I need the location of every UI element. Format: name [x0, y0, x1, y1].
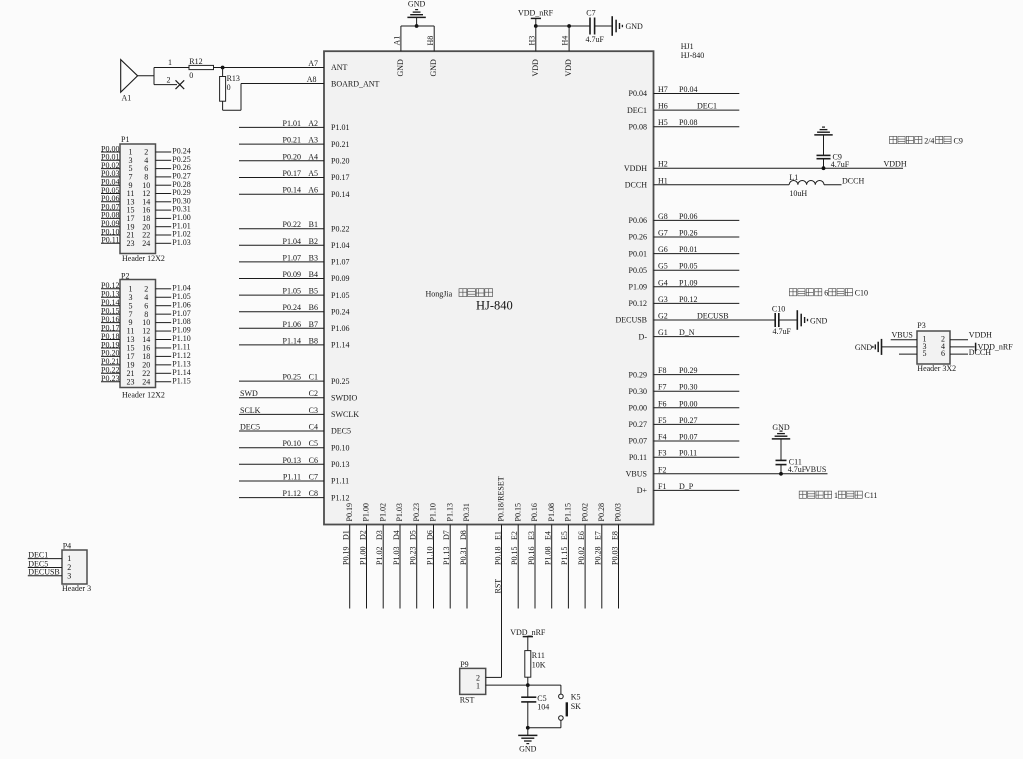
svg-text:SWDIO: SWDIO: [331, 393, 357, 402]
svg-text:RST: RST: [493, 579, 502, 594]
resistor R11 10K: [525, 651, 531, 678]
svg-text:A7: A7: [308, 59, 318, 68]
svg-text:P1.01: P1.01: [283, 119, 301, 128]
svg-text:P0.10: P0.10: [331, 443, 349, 452]
P1 pin 13 P0.06 wire: [101, 201, 120, 203]
P2 pin 22 P1.14 wire: [156, 372, 172, 374]
ground (top, A1/H8): [407, 16, 425, 18]
pin B3 P1.07 wire: [239, 261, 324, 263]
pin E2 P0.15 wire: [517, 525, 519, 609]
svg-text:F8: F8: [658, 366, 666, 375]
svg-text:DEC1: DEC1: [697, 102, 717, 111]
svg-text:VDD_nRF: VDD_nRF: [518, 9, 554, 18]
svg-text:P1.13: P1.13: [442, 547, 451, 565]
svg-text:G2: G2: [658, 312, 668, 321]
svg-text:P0.06: P0.06: [679, 212, 697, 221]
pin E3 P0.16 wire: [534, 525, 536, 609]
P2 pin 9 P0.16 wire: [101, 322, 120, 324]
svg-text:P1.12: P1.12: [283, 489, 301, 498]
svg-text:D1: D1: [342, 530, 351, 540]
wire L1 to DCCH label: [824, 184, 842, 186]
svg-text:P0.15: P0.15: [513, 503, 522, 521]
svg-text:P1.06: P1.06: [283, 320, 301, 329]
svg-text:P0.03: P0.03: [610, 547, 619, 565]
pin E6 P0.02 wire: [584, 525, 586, 609]
svg-text:P0.28: P0.28: [597, 503, 606, 521]
P2 pin 1 P0.12 wire: [101, 288, 120, 290]
svg-text:P0.26: P0.26: [679, 229, 697, 238]
pin A3 P0.21 wire: [239, 143, 324, 145]
pin D4 P1.03 wire: [399, 525, 401, 609]
svg-text:DCCH: DCCH: [625, 181, 647, 190]
pin D2 P1.00 wire: [366, 525, 368, 609]
pin B4 P0.09 wire: [239, 278, 324, 280]
svg-text:10K: 10K: [532, 661, 546, 670]
wire K5 to ground node: [560, 720, 562, 728]
svg-text:P0.02: P0.02: [580, 503, 589, 521]
P2 pin 6 P1.06 wire: [156, 305, 172, 307]
antenna A1: [121, 60, 138, 93]
svg-text:D7: D7: [442, 530, 451, 540]
svg-text:P0.06: P0.06: [629, 216, 647, 225]
P1 pin 14 P0.30 wire: [156, 201, 172, 203]
svg-text:VDDH: VDDH: [969, 331, 992, 340]
svg-text:P1.05: P1.05: [331, 291, 349, 300]
svg-text:G4: G4: [658, 278, 668, 287]
svg-text:P3: P3: [917, 321, 925, 330]
svg-text:P0.17: P0.17: [331, 173, 349, 182]
svg-text:DEC5: DEC5: [240, 423, 260, 432]
svg-text:C7: C7: [309, 473, 318, 482]
svg-text:P0.20: P0.20: [331, 157, 349, 166]
svg-text:1: 1: [67, 554, 71, 563]
svg-text:P0.10: P0.10: [283, 439, 301, 448]
svg-text:SCLK: SCLK: [240, 406, 261, 415]
svg-text:H1: H1: [658, 176, 668, 185]
svg-text:GND: GND: [626, 22, 644, 31]
ground (right of C7): [611, 16, 613, 36]
pin D8 P0.31 wire: [466, 525, 468, 609]
connector P2 Header 12X2: [120, 280, 156, 388]
svg-text:P0.09: P0.09: [283, 270, 301, 279]
svg-text:P0.31: P0.31: [459, 547, 468, 565]
svg-text:P0.15: P0.15: [510, 547, 519, 565]
P2 pin 3 P0.13 wire: [101, 296, 120, 298]
svg-text:P0.18: P0.18: [493, 547, 502, 565]
P1 pin 2 P0.24 wire: [156, 151, 172, 153]
svg-text:A1: A1: [393, 36, 402, 46]
pin B1 P0.22 wire: [239, 228, 324, 230]
svg-text:P4: P4: [63, 541, 71, 550]
svg-text:D_N: D_N: [679, 328, 695, 337]
svg-text:P0.23: P0.23: [409, 547, 418, 565]
svg-text:P1.05: P1.05: [283, 287, 301, 296]
ground (below reset circuit): [527, 728, 529, 736]
P2 pin 11 P0.17 wire: [101, 330, 120, 332]
svg-text:P9: P9: [460, 660, 468, 669]
svg-text:P1.00: P1.00: [362, 503, 371, 521]
svg-text:H2: H2: [658, 160, 668, 169]
svg-text:P0.08: P0.08: [679, 118, 697, 127]
svg-text:C3: C3: [309, 406, 318, 415]
pin C1 P0.25 wire: [239, 380, 324, 382]
P1 pin 10 P0.28 wire: [156, 184, 172, 186]
svg-text:P1.11: P1.11: [283, 473, 301, 482]
wire P9 pin2 to RST net: [486, 676, 502, 678]
svg-text:P0.02: P0.02: [577, 547, 586, 565]
svg-text:C4: C4: [309, 423, 318, 432]
wire P9 pin1 node: [486, 684, 561, 686]
svg-text:B2: B2: [309, 237, 318, 246]
svg-text:H5: H5: [658, 118, 668, 127]
pin C5 P0.10 wire: [239, 447, 324, 449]
P1 pin 17 P0.08 wire: [101, 217, 120, 219]
svg-text:D5: D5: [409, 530, 418, 540]
svg-text:DEC1: DEC1: [28, 550, 48, 559]
svg-text:D-: D-: [639, 332, 648, 341]
wire antenna pin 2 stub: [154, 84, 177, 86]
svg-text:P0.01: P0.01: [629, 249, 647, 258]
svg-text:1: 1: [476, 682, 480, 691]
svg-text:23: 23: [127, 377, 135, 386]
svg-text:E4: E4: [544, 531, 553, 540]
svg-text:P1.13: P1.13: [445, 503, 454, 521]
P1 pin 19 P0.09 wire: [101, 226, 120, 228]
svg-text:P0.11: P0.11: [629, 453, 647, 462]
svg-text:C2: C2: [309, 389, 318, 398]
pin A6 P0.14 wire: [239, 193, 324, 195]
pin D3 P1.02 wire: [382, 525, 384, 609]
capacitor C7 4.7uF: [589, 18, 591, 35]
svg-text:HJ-840: HJ-840: [476, 299, 513, 313]
svg-text:D4: D4: [392, 530, 401, 540]
svg-text:E7: E7: [594, 531, 603, 540]
P1 pin 3 P0.01 wire: [101, 159, 120, 161]
svg-text:P0.23: P0.23: [412, 503, 421, 521]
P3 pin 6 DCCH wire: [950, 353, 968, 355]
wire R12 to pin A7: [214, 67, 325, 69]
svg-text:P0.29: P0.29: [629, 370, 647, 379]
svg-text:P0.24: P0.24: [331, 307, 349, 316]
resistor R13 0: [222, 68, 224, 77]
connector P9 RST: [460, 668, 486, 694]
pin C3 SWCLK wire: [239, 413, 324, 415]
svg-text:H8: H8: [426, 36, 435, 46]
P1 pin 7 P0.03 wire: [101, 176, 120, 178]
svg-text:SWD: SWD: [240, 389, 258, 398]
svg-text:F4: F4: [658, 433, 666, 442]
svg-text:GND: GND: [396, 59, 405, 77]
svg-text:GND: GND: [855, 343, 873, 352]
svg-text:0: 0: [189, 71, 193, 80]
svg-text:E5: E5: [560, 531, 569, 540]
svg-text:P0.12: P0.12: [679, 295, 697, 304]
pin C4 DEC5 wire: [239, 430, 324, 432]
pin H3 VDD: [535, 26, 537, 51]
svg-text:D6: D6: [425, 530, 434, 540]
svg-text:4.7uF: 4.7uF: [788, 465, 807, 474]
P2 pin 17 P0.20 wire: [101, 355, 120, 357]
capacitor C11 4.7uF: [776, 459, 787, 461]
pin B5 P1.05 wire: [239, 294, 324, 296]
svg-text:BOARD_ANT: BOARD_ANT: [331, 80, 380, 89]
svg-text:P0.16: P0.16: [530, 503, 539, 521]
connector P3 Header 3X2: [917, 331, 950, 364]
svg-text:P0.27: P0.27: [629, 420, 647, 429]
svg-text:A8: A8: [307, 75, 317, 84]
P3 pin 2 VDDH wire: [950, 339, 968, 341]
svg-text:VDD: VDD: [531, 59, 540, 77]
svg-text:24: 24: [142, 239, 150, 248]
P1 pin 8 P0.27 wire: [156, 176, 172, 178]
svg-text:P1.10: P1.10: [425, 547, 434, 565]
svg-text:DECUSB: DECUSB: [697, 312, 729, 321]
pin A5 P0.17 wire: [239, 177, 324, 179]
wire R13 to pin A8: [222, 101, 224, 110]
svg-text:1: 1: [834, 491, 838, 500]
svg-text:P0.11: P0.11: [679, 449, 697, 458]
svg-text:P0.19: P0.19: [342, 547, 351, 565]
svg-text:P1.12: P1.12: [331, 493, 349, 502]
P3 pin 4 VDD_nRF wire: [950, 346, 975, 348]
svg-text:VBUS: VBUS: [626, 470, 647, 479]
svg-text:C9: C9: [954, 136, 963, 145]
svg-text:VDDH: VDDH: [624, 164, 647, 173]
svg-text:E2: E2: [510, 531, 519, 540]
pin C2 SWDIO wire: [239, 397, 324, 399]
capacitor C5 104: [527, 685, 529, 697]
svg-text:P1.04: P1.04: [331, 241, 349, 250]
svg-text:5: 5: [923, 349, 927, 358]
P2 pin 10 P1.08 wire: [156, 322, 172, 324]
svg-text:P1.09: P1.09: [679, 278, 697, 287]
P1 pin 4 P0.25 wire: [156, 159, 172, 161]
svg-text:DECUSB: DECUSB: [615, 316, 647, 325]
power port VDD_nRF (P3 pin 4): [975, 343, 977, 351]
svg-text:R11: R11: [532, 651, 545, 660]
svg-text:DEC1: DEC1: [627, 106, 647, 115]
pin B8 P1.14 wire: [239, 344, 324, 346]
svg-text:P1.01: P1.01: [331, 123, 349, 132]
svg-text:GND: GND: [429, 59, 438, 77]
svg-text:D8: D8: [459, 530, 468, 540]
svg-text:GND: GND: [810, 316, 828, 325]
svg-text:4.7uF: 4.7uF: [773, 327, 792, 336]
svg-text:E1: E1: [493, 531, 502, 540]
svg-text:DCCH: DCCH: [842, 176, 864, 185]
svg-text:P0.09: P0.09: [331, 274, 349, 283]
svg-text:E8: E8: [610, 531, 619, 540]
P2 pin 21 P0.22 wire: [101, 372, 120, 374]
svg-text:DCCH: DCCH: [969, 348, 991, 357]
svg-text:P0.22: P0.22: [331, 224, 349, 233]
pin E8 P0.03 wire: [618, 525, 620, 609]
P1 pin 18 P1.00 wire: [156, 217, 172, 219]
wire VDD_nRF to pins H3 H4 and C7: [536, 25, 590, 27]
P2 pin 8 P1.07 wire: [156, 313, 172, 315]
P3 pin 3 GND wire: [882, 346, 918, 348]
svg-text:2: 2: [167, 75, 171, 84]
pin B2 P1.04 wire: [239, 244, 324, 246]
pin C8 P1.12 wire: [239, 497, 324, 499]
svg-text:B8: B8: [309, 336, 318, 345]
P2 pin 23 P0.23 wire: [101, 381, 120, 383]
svg-text:P1.15: P1.15: [560, 547, 569, 565]
P2 pin 16 P1.11 wire: [156, 347, 172, 349]
no-connect X on pin 2: [176, 80, 185, 89]
wire antenna pin 1: [154, 67, 189, 69]
svg-text:E3: E3: [527, 531, 536, 540]
svg-text:P1.15: P1.15: [564, 503, 573, 521]
P4 pin 2 DEC5 wire: [28, 567, 62, 569]
svg-text:C8: C8: [309, 489, 318, 498]
svg-text:C10: C10: [855, 289, 868, 298]
pin D1 P0.19 wire: [349, 525, 351, 609]
svg-text:104: 104: [537, 702, 549, 711]
pin C7 P1.11 wire: [239, 480, 324, 482]
svg-text:D_P: D_P: [679, 482, 694, 491]
svg-text:RST: RST: [460, 695, 475, 704]
pin B7 P1.06 wire: [239, 327, 324, 329]
svg-text:G8: G8: [658, 212, 668, 221]
svg-text:P0.16: P0.16: [527, 547, 536, 565]
svg-text:P0.26: P0.26: [629, 233, 647, 242]
resistor R12 0: [189, 65, 214, 69]
P1 pin 11 P0.05 wire: [101, 193, 120, 195]
svg-text:6: 6: [941, 349, 945, 358]
svg-text:C6: C6: [309, 456, 318, 465]
P2 pin 24 P1.15 wire: [156, 381, 172, 383]
svg-text:P2: P2: [121, 272, 129, 281]
svg-text:A5: A5: [308, 169, 318, 178]
pin A1 GND: [400, 26, 402, 51]
svg-text:P1.15: P1.15: [172, 376, 190, 385]
switch K5 SK: [560, 685, 562, 694]
connector P1 Header 12X2: [120, 144, 156, 254]
svg-text:P0.05: P0.05: [629, 266, 647, 275]
svg-text:HJ1: HJ1: [681, 42, 694, 51]
wire C10 to ground: [779, 319, 798, 321]
wire R11 to node: [527, 677, 529, 685]
svg-text:HJ-840: HJ-840: [681, 51, 705, 60]
svg-text:2/4: 2/4: [924, 136, 934, 145]
svg-text:B5: B5: [309, 287, 318, 296]
svg-text:A2: A2: [308, 119, 318, 128]
svg-text:0: 0: [227, 83, 231, 92]
svg-text:GND: GND: [519, 745, 537, 754]
svg-text:P0.04: P0.04: [629, 89, 647, 98]
ground (P3 pin 3): [881, 339, 883, 355]
svg-text:HongJia: HongJia: [426, 290, 453, 299]
P1 pin 1 P0.00 wire: [101, 151, 120, 153]
svg-text:DEC5: DEC5: [331, 427, 351, 436]
svg-text:B3: B3: [309, 253, 318, 262]
svg-text:A1: A1: [122, 94, 132, 103]
svg-text:P0.07: P0.07: [629, 437, 647, 446]
svg-text:F6: F6: [658, 399, 666, 408]
svg-text:C7: C7: [586, 9, 595, 18]
pin D6 P1.10 wire: [433, 525, 435, 609]
pin H8 GND: [433, 26, 435, 51]
svg-text:P0.24: P0.24: [283, 303, 301, 312]
wire GND to pins A1 H8: [401, 25, 434, 27]
svg-text:1: 1: [168, 58, 172, 67]
svg-text:P1.14: P1.14: [283, 336, 301, 345]
P2 pin 14 P1.10 wire: [156, 339, 172, 341]
connector P4 Header 3: [62, 550, 87, 584]
svg-text:P1.09: P1.09: [629, 283, 647, 292]
inductor L1 10uH: [789, 180, 824, 184]
capacitor C10 4.7uF: [774, 313, 776, 327]
note C10 connection: [789, 289, 796, 296]
svg-text:P0.14: P0.14: [331, 190, 349, 199]
svg-text:VDD: VDD: [564, 59, 573, 77]
svg-text:P0.08: P0.08: [629, 122, 647, 131]
svg-text:P0.13: P0.13: [331, 460, 349, 469]
svg-text:F5: F5: [658, 416, 666, 425]
svg-text:P0.20: P0.20: [283, 152, 301, 161]
svg-text:P0.11: P0.11: [101, 236, 119, 245]
svg-text:P1.06: P1.06: [331, 324, 349, 333]
P2 pin 18 P1.12 wire: [156, 355, 172, 357]
svg-text:C11: C11: [864, 491, 877, 500]
P1 pin 6 P0.26 wire: [156, 168, 172, 170]
IC HJ1 HJ-840 module body: [324, 51, 654, 524]
svg-text:G6: G6: [658, 245, 668, 254]
svg-text:P1.03: P1.03: [395, 503, 404, 521]
capacitor C9 4.7uF: [817, 154, 831, 156]
pin E4 P1.08 wire: [551, 525, 553, 609]
svg-text:F3: F3: [658, 449, 666, 458]
svg-text:F7: F7: [658, 383, 666, 392]
svg-text:VBUS: VBUS: [892, 331, 913, 340]
svg-text:P1.07: P1.07: [283, 253, 301, 262]
P1 pin 21 P0.10 wire: [101, 234, 120, 236]
svg-text:D3: D3: [375, 530, 384, 540]
svg-text:C1: C1: [309, 373, 318, 382]
ground (above C9): [823, 135, 825, 156]
svg-text:D2: D2: [358, 530, 367, 540]
svg-text:P1.08: P1.08: [544, 547, 553, 565]
svg-text:4.7uF: 4.7uF: [831, 160, 850, 169]
svg-text:P0.28: P0.28: [594, 547, 603, 565]
svg-text:VDDH: VDDH: [884, 160, 907, 169]
svg-text:6: 6: [824, 289, 828, 298]
svg-text:C5: C5: [309, 439, 318, 448]
svg-text:P0.25: P0.25: [283, 373, 301, 382]
pin B6 P0.24 wire: [239, 311, 324, 313]
svg-text:Header 12X2: Header 12X2: [122, 390, 165, 399]
svg-text:Header 3: Header 3: [62, 584, 91, 593]
P1 pin 23 P0.11 wire: [101, 242, 120, 244]
P1 pin 15 P0.07 wire: [101, 209, 120, 211]
svg-text:K5: K5: [571, 693, 581, 702]
note C11 connection: [799, 491, 806, 498]
svg-text:P1.02: P1.02: [375, 547, 384, 565]
svg-text:R12: R12: [189, 57, 202, 66]
pin D7 P1.13 wire: [449, 525, 451, 609]
svg-text:24: 24: [142, 377, 150, 386]
svg-text:P0.21: P0.21: [331, 140, 349, 149]
svg-text:P0.18/RESET: P0.18/RESET: [497, 476, 506, 521]
svg-text:Header 12X2: Header 12X2: [122, 254, 165, 263]
svg-text:4.7uF: 4.7uF: [586, 35, 605, 44]
svg-text:H3: H3: [527, 36, 536, 46]
pin C6 P0.13 wire: [239, 463, 324, 465]
pin E1 P0.18/RESET wire: [501, 525, 503, 678]
svg-text:P1.07: P1.07: [331, 258, 349, 267]
P2 pin 12 P1.09 wire: [156, 330, 172, 332]
